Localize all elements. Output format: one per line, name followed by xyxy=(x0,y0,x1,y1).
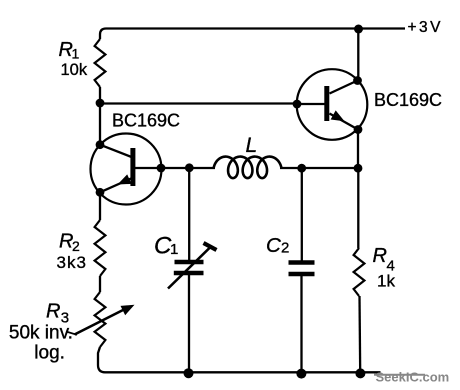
node: Q1 collector junction xyxy=(96,140,105,149)
capacitor C2 xyxy=(289,168,315,372)
wire: +3V junction down to Q2 collector xyxy=(357,29,359,82)
svg-text:1: 1 xyxy=(170,241,178,258)
node: +3V rail junction xyxy=(354,25,363,34)
node: C1 top junction xyxy=(185,163,194,172)
wire: Q1 emitter down to R2 xyxy=(99,192,101,220)
node: R4 bottom junction xyxy=(355,368,365,378)
wire: tank junction down to R4 xyxy=(357,168,359,248)
svg-text:BC169C: BC169C xyxy=(374,90,442,110)
svg-text:+3V: +3V xyxy=(408,19,444,36)
svg-text:SeekIC.com: SeekIC.com xyxy=(376,370,450,385)
svg-text:log.: log. xyxy=(34,343,65,364)
wire: R2 to R3 xyxy=(99,276,101,292)
svg-text:3k3: 3k3 xyxy=(57,253,87,272)
node: Q2 emitter junction xyxy=(354,125,363,134)
watermark SeekIC.com xyxy=(374,370,449,385)
svg-text:10k: 10k xyxy=(61,61,88,79)
resistor R4 xyxy=(354,248,365,296)
svg-text:L: L xyxy=(246,134,258,157)
transistor Q1 BC169C (left) xyxy=(91,134,162,205)
wire: junction to Q2 base xyxy=(100,102,297,104)
wire: Q1 base to coil xyxy=(161,167,215,169)
wire: R4 to bottom rail xyxy=(358,296,361,372)
variable capacitor C1 (trimmer) xyxy=(168,168,217,372)
wire: Q2 emitter down to tank junction xyxy=(357,130,359,169)
node: C2 bottom junction xyxy=(296,369,306,379)
svg-text:50k inv.: 50k inv. xyxy=(9,323,73,344)
wire: R3 to bottom rail, bottom rail xyxy=(98,347,381,372)
node: tank / R4 junction xyxy=(354,164,363,173)
inductor L xyxy=(214,157,281,179)
node: C1 bottom junction xyxy=(184,368,194,378)
leader line from R3 label to arrow xyxy=(66,332,77,335)
wire: coil to tank junction xyxy=(280,167,358,169)
svg-text:1k: 1k xyxy=(377,272,395,291)
svg-text:2: 2 xyxy=(281,240,289,257)
svg-text:2: 2 xyxy=(72,238,80,254)
node: R1 / Q2-base junction xyxy=(96,99,105,108)
node: Q2 base node xyxy=(293,100,302,109)
resistor R2 xyxy=(95,220,106,276)
variable resistor R3 (50k inv. log) xyxy=(75,292,135,347)
svg-text:R: R xyxy=(373,245,387,267)
node: Q2 collector junction xyxy=(353,76,362,85)
svg-text:R: R xyxy=(46,301,60,323)
wire: R1 bottom lead xyxy=(99,87,101,104)
node: C2 top junction xyxy=(297,164,306,173)
svg-text:C: C xyxy=(266,234,281,257)
svg-text:BC169C: BC169C xyxy=(112,111,180,131)
svg-text:1: 1 xyxy=(72,46,80,62)
resistor R1 xyxy=(95,39,106,87)
transistor Q2 BC169C (right) xyxy=(297,69,368,140)
node: Q1 emitter junction xyxy=(96,188,105,197)
node: Q1 base node xyxy=(157,164,166,173)
wire: +3V supply rail (top) xyxy=(100,29,405,40)
wire: junction down to Q1 collector xyxy=(99,104,101,146)
